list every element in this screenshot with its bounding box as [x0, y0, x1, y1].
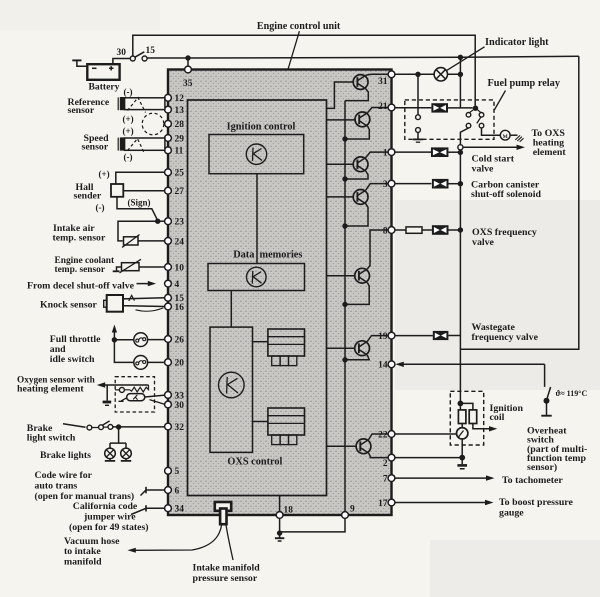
- junction Q4 emitter on bus: [342, 223, 347, 228]
- ignition switch blade: [135, 52, 144, 57]
- svg-text:(-): (-): [124, 87, 133, 97]
- oxygen sensor label: [17, 376, 96, 395]
- ground symbol bottom: [275, 533, 284, 541]
- arrow to tachometer: [395, 475, 495, 480]
- svg-text:9: 9: [350, 505, 355, 515]
- pin 25 (left edge): [165, 169, 185, 179]
- output stage connector 2: [268, 408, 305, 445]
- relay coil (pin 21 to plus): [395, 103, 473, 112]
- callout to relay box: [494, 91, 505, 111]
- svg-text:Data memories: Data memories: [233, 249, 302, 260]
- pin 34 (left edge): [165, 505, 185, 515]
- pin 11 (left edge): [165, 147, 184, 157]
- brake light switch label: [27, 423, 76, 444]
- knock sensor transducer: [104, 295, 123, 312]
- svg-text:34: 34: [175, 505, 185, 515]
- fuel pump motor M: [500, 130, 510, 140]
- wire OXS control to output stage connector 1: [253, 341, 268, 343]
- wire down to idle switch: [114, 340, 133, 363]
- svg-text:Code wire for: Code wire for: [35, 470, 93, 481]
- wire lamp-left down to aux contact: [417, 74, 419, 115]
- transistor Q3 (drives pin 1): [353, 157, 368, 172]
- from decel shut-off valve label: [27, 280, 135, 291]
- pin 23 (left edge): [165, 218, 185, 228]
- wire Q5 emitter to bus: [345, 283, 369, 305]
- cold start valve label: [472, 153, 515, 174]
- wire Q1 base staircase from logic block: [327, 82, 355, 108]
- svg-text:to intake: to intake: [64, 546, 101, 557]
- pin 33 (left edge): [165, 391, 185, 401]
- coil common terminal circle: [457, 424, 468, 439]
- overheat switch S3: [544, 387, 551, 404]
- temperature label 119C: [556, 389, 588, 398]
- arrow into pin 4: [137, 281, 157, 286]
- OXS frequency valve series resistor: [395, 227, 432, 233]
- svg-text:(-): (-): [96, 203, 105, 213]
- svg-text:OXS control: OXS control: [227, 457, 282, 468]
- wire lambda return to pin 30: [150, 400, 165, 405]
- ignition control block label: [227, 122, 296, 133]
- svg-text:Knock sensor: Knock sensor: [40, 300, 98, 311]
- transistor Q2 (drives pin 21): [355, 112, 370, 127]
- label (-) speed: [124, 152, 133, 162]
- pin 17 (right edge): [378, 499, 395, 509]
- pin 20 (left edge): [165, 359, 185, 369]
- shield loop to pin 28 (dashed circle): [142, 113, 164, 135]
- brake lamp L1: [105, 448, 116, 459]
- svg-text:To boost pressure: To boost pressure: [499, 497, 574, 508]
- wire hall minus to pin 23 node: [117, 197, 158, 221]
- svg-text:30: 30: [175, 401, 185, 411]
- svg-text:ϑ≈ 119°C: ϑ≈ 119°C: [556, 389, 588, 398]
- svg-text:element: element: [533, 147, 567, 158]
- pin 21 (right edge): [378, 102, 395, 112]
- svg-text:28: 28: [175, 120, 185, 130]
- wire OXS control to output stage connector 2: [253, 421, 268, 423]
- svg-text:31: 31: [378, 77, 388, 87]
- wire Q3 collector to pin 1: [366, 152, 389, 157]
- wire data memories to OXS control: [230, 291, 232, 328]
- intake air temp sensor R1 (thermistor): [122, 235, 140, 248]
- knock sensor label: [40, 300, 98, 311]
- emitter bus (internal ground rail to pin 9): [344, 101, 346, 512]
- svg-text:(+): (+): [123, 114, 134, 124]
- junction relay contact common: [473, 106, 478, 111]
- data memories box with K symbol: [208, 264, 305, 291]
- pin 26 (left edge): [165, 335, 185, 345]
- wire Q4 emitter to bus: [345, 204, 368, 226]
- wire Q5 base from logic block: [327, 275, 356, 277]
- svg-text:22: 22: [378, 430, 388, 440]
- data memories label: [233, 249, 302, 260]
- callout to pressure sensor label: [226, 524, 233, 560]
- vacuum hose to arrow: [128, 524, 222, 553]
- svg-text:valve: valve: [472, 237, 495, 248]
- battery negative terminal to chassis ground: [72, 60, 87, 66]
- svg-text:heating element: heating element: [17, 383, 84, 394]
- lambda sensor case ground: [119, 398, 127, 402]
- carbon canister label: [471, 179, 541, 200]
- engine coolant temp sensor R2 (thermistor): [120, 259, 142, 273]
- pin 7 (right edge): [383, 475, 395, 485]
- coil primary winding: [458, 403, 466, 423]
- wire Q2 base from logic block: [327, 119, 356, 121]
- svg-text:Engine control unit: Engine control unit: [257, 21, 341, 32]
- pin 30 (left edge): [165, 401, 185, 411]
- svg-text:sensor): sensor): [527, 462, 557, 473]
- svg-text:24: 24: [175, 237, 185, 247]
- svg-text:26: 26: [175, 335, 185, 345]
- transistor Q1 (drives pin 31): [353, 75, 368, 90]
- knock cable marker: [129, 295, 135, 301]
- label (+) reference: [123, 114, 134, 124]
- pin 29 (left edge): [165, 134, 185, 144]
- pin 15 (left edge): [165, 294, 185, 304]
- wire idle switch to pin 20: [148, 361, 165, 363]
- pin 32 (left edge): [165, 423, 185, 433]
- full throttle and idle switch label: [50, 334, 101, 365]
- speed sensor label: [82, 133, 110, 152]
- OXS frequency valve label: [472, 227, 537, 248]
- wire Q1 emitter to bus: [345, 89, 368, 101]
- svg-text:sensor: sensor: [82, 142, 109, 153]
- wire Q4 base from logic block: [327, 196, 355, 198]
- hall sender label: [74, 182, 102, 202]
- wire plus feed down to relay coil node: [459, 57, 461, 107]
- wire coolant sensor to pin 10: [139, 266, 165, 268]
- knock cable shield arc: [136, 308, 164, 311]
- wire Q7 base from logic block: [327, 445, 357, 447]
- heater terminal circle: [115, 387, 124, 392]
- overheat switch ground: [541, 403, 551, 416]
- pin 22 (right edge): [378, 430, 395, 440]
- svg-text:(Sign): (Sign): [128, 197, 151, 207]
- svg-text:20: 20: [175, 359, 185, 369]
- svg-text:jumper wire: jumper wire: [83, 511, 136, 522]
- arrow to OXS heating element: [460, 145, 525, 153]
- transistor Q5 (drives pin 8): [355, 268, 370, 283]
- wire Q6 collector to pin 19: [367, 336, 388, 342]
- wire terminal 15 bus (switched plus): [147, 56, 579, 58]
- pin 13 (left edge): [165, 106, 185, 116]
- label (+) hall: [99, 169, 110, 179]
- svg-text:M: M: [503, 134, 509, 140]
- overheat switch label: [527, 425, 587, 473]
- svg-text:valve: valve: [472, 163, 495, 174]
- pin 19 (right edge): [378, 332, 395, 342]
- valve supply bus: [459, 150, 461, 403]
- junction brake node: [116, 424, 121, 429]
- OXS frequency valve Y3: [432, 225, 463, 235]
- junction Q6 emitter on bus: [342, 357, 347, 362]
- pin 18 (bottom edge): [276, 506, 293, 519]
- heating element R3: [125, 385, 149, 392]
- california jumper open end to pin 34: [131, 505, 165, 514]
- junction coil supply: [458, 401, 464, 407]
- brake lamp L2: [121, 448, 132, 459]
- pin 12 (left edge): [165, 94, 185, 104]
- svg-text:32: 32: [175, 423, 185, 433]
- pressure sensor label: [193, 562, 261, 584]
- output stage connector 1: [268, 329, 305, 366]
- brake lights label: [40, 450, 91, 461]
- transistor Q6 (drives pin 19): [355, 341, 370, 356]
- svg-text:Battery: Battery: [89, 81, 120, 92]
- to OXS heating element label: [532, 128, 567, 158]
- heater ground: [103, 385, 112, 406]
- throttle feed arrow up: [112, 325, 117, 341]
- svg-text:temp. sensor: temp. sensor: [55, 265, 106, 275]
- svg-text:35: 35: [183, 79, 193, 89]
- ECU inner logic block border: [188, 100, 327, 496]
- code wire labels: [35, 470, 135, 502]
- pin 3 (right edge): [383, 180, 395, 190]
- reference sensor twist marks (dashed): [128, 98, 146, 113]
- ignition switch terminal 30: [117, 48, 136, 61]
- wire overheat switch to pin 14 (arrow): [395, 362, 544, 387]
- brake lamp grounds: [105, 459, 131, 461]
- svg-text:(+): (+): [99, 169, 110, 179]
- wire full throttle switch to pin 26: [148, 339, 165, 341]
- wire pin 9 to ground node: [280, 518, 345, 532]
- pin 27 (left edge): [165, 187, 185, 197]
- wire Q1 collector to pin 31: [366, 73, 389, 76]
- svg-text:Ignition control: Ignition control: [227, 122, 296, 133]
- wire battery positive to terminal 30: [113, 59, 130, 65]
- junction throttle feed: [112, 337, 117, 342]
- relay aux contact (to ground): [416, 115, 421, 133]
- coil secondary winding: [460, 403, 476, 423]
- svg-text:8: 8: [383, 226, 388, 236]
- wire right-side loop from terminal 15 to valve bus: [460, 56, 578, 349]
- svg-text:(-): (-): [124, 152, 133, 162]
- svg-text:14: 14: [378, 361, 388, 371]
- indicator light label: [485, 37, 549, 48]
- wire Q6 emitter to bus: [345, 355, 369, 360]
- svg-text:Brake lights: Brake lights: [40, 450, 91, 461]
- code wire open end to pin 6: [141, 487, 165, 496]
- wire Q2 collector to pin 21: [368, 108, 389, 113]
- speed sensor pickup: [118, 137, 124, 150]
- svg-text:gauge: gauge: [499, 507, 524, 518]
- fuel pump chassis ground: [510, 135, 523, 142]
- svg-text:17: 17: [378, 499, 388, 509]
- svg-text:33: 33: [175, 391, 185, 401]
- lambda sensor element: [127, 394, 145, 401]
- pin 24 (left edge): [165, 237, 185, 247]
- svg-text:15: 15: [146, 46, 156, 56]
- svg-text:27: 27: [175, 187, 185, 197]
- wire to full throttle switch: [114, 339, 133, 341]
- wire Q7 emitter to pin 2: [369, 453, 389, 458]
- svg-text:3: 3: [383, 180, 388, 190]
- wire node23 to intake air temp sensor: [118, 221, 158, 241]
- reference sensor label: [68, 97, 110, 116]
- junction Q2 emitter on bus: [342, 136, 347, 141]
- wire knock sensor to pin 15: [123, 298, 165, 299]
- junction terminal15/pin35: [185, 55, 190, 66]
- brake light switch contacts: [87, 421, 113, 430]
- wire Q7 collector to pin 22: [369, 434, 389, 440]
- coil ground: [457, 458, 467, 470]
- svg-text:pressure sensor: pressure sensor: [193, 573, 258, 584]
- to tachometer label: [502, 475, 563, 486]
- carbon canister shut-off solenoid Y2: [395, 179, 463, 189]
- ignition switch terminal 15: [142, 46, 155, 61]
- callout line to ECU box: [288, 31, 299, 69]
- svg-text:10: 10: [175, 263, 185, 273]
- svg-text:(+): (+): [123, 126, 134, 136]
- wire from label to switch: [63, 424, 86, 428]
- cold start valve Y1: [395, 147, 463, 157]
- svg-text:Indicator light: Indicator light: [485, 37, 549, 48]
- svg-text:19: 19: [378, 332, 388, 342]
- pin 31 (right edge): [378, 71, 395, 87]
- svg-text:30: 30: [117, 48, 127, 58]
- to boost pressure gauge label: [499, 497, 574, 519]
- svg-text:16: 16: [175, 303, 185, 313]
- wire Q6 base from logic block: [327, 347, 356, 349]
- svg-text:coil: coil: [490, 412, 505, 423]
- intake manifold pressure sensor (plug): [215, 502, 231, 524]
- relay aux contact ground: [413, 132, 423, 142]
- engine coolant temp sensor label: [55, 256, 116, 275]
- wire Q2 emitter to bus: [345, 126, 369, 139]
- full throttle microswitch S1: [134, 333, 148, 347]
- fuel pump relay label: [488, 78, 561, 89]
- svg-text:4: 4: [175, 280, 180, 290]
- OXS control label: [227, 457, 282, 468]
- engine control unit U1 (outer box): [168, 70, 392, 516]
- svg-text:shut-off solenoid: shut-off solenoid: [471, 189, 541, 200]
- pin 1 (right edge): [383, 149, 395, 159]
- junction node pin 23: [155, 219, 165, 224]
- pin 8 (right edge): [383, 226, 395, 236]
- pin 6 (left edge): [165, 486, 180, 496]
- svg-text:5: 5: [175, 467, 180, 477]
- wire pin 18 to ground: [279, 518, 281, 533]
- junction Q3 emitter on bus: [342, 176, 347, 181]
- wire pin 31 to lamp circuit: [395, 73, 461, 75]
- wire relay output to valve bus: [460, 128, 468, 144]
- wire hall signal to pin 27: [123, 190, 165, 192]
- svg-text:idle switch: idle switch: [50, 354, 95, 365]
- junction lamp right / plus feed: [458, 72, 463, 77]
- ignition coil label: [490, 403, 524, 423]
- svg-text:18: 18: [284, 506, 294, 516]
- wire Q3 emitter to bus: [345, 171, 368, 179]
- svg-text:11: 11: [175, 147, 184, 157]
- idle microswitch S2: [134, 356, 148, 370]
- wire pin 22 to coil terminal: [395, 433, 457, 435]
- pin 5 (left edge): [165, 467, 180, 477]
- OXS control box with K symbol: [210, 327, 253, 452]
- svg-text:6: 6: [175, 486, 180, 496]
- fuel pump relay K1 dashed box: [405, 100, 494, 139]
- svg-text:frequency valve: frequency valve: [472, 332, 539, 343]
- svg-text:light switch: light switch: [27, 433, 76, 444]
- oxygen sensor dashed enclosure: [115, 377, 154, 412]
- arrow to boost pressure gauge: [395, 500, 494, 505]
- svg-text:29: 29: [175, 134, 185, 144]
- svg-text:California code: California code: [73, 501, 138, 512]
- junction terminal15/indicator feed: [458, 55, 463, 60]
- speed sensor cable pair to pins 29/11: [125, 138, 165, 150]
- junction ground node: [277, 530, 282, 535]
- pin 28 (left edge): [165, 120, 185, 130]
- wire pin 2 to ground node: [395, 455, 466, 461]
- label (+) speed: [123, 126, 134, 136]
- wire Q5 collector to pin 8: [367, 230, 388, 269]
- battery label: [89, 81, 120, 92]
- wastegate frequency valve Y4: [395, 331, 461, 340]
- label (-) reference: [124, 87, 133, 97]
- callout to lamp: [446, 47, 485, 71]
- svg-text:23: 23: [175, 218, 185, 228]
- battery B1: [87, 64, 119, 80]
- relay main contact set: [466, 108, 484, 128]
- reference sensor cable pair to pins 12/13: [125, 98, 165, 110]
- svg-text:Fuel pump relay: Fuel pump relay: [488, 78, 561, 89]
- wire brake node to pin 32: [113, 426, 165, 428]
- svg-text:7: 7: [383, 475, 388, 485]
- svg-text:sender: sender: [74, 190, 102, 201]
- wire Q3 base from logic block: [327, 163, 355, 165]
- coil HT output arrow: [473, 424, 497, 432]
- engine control unit label: [257, 21, 341, 32]
- pin 14 (right edge): [378, 361, 395, 371]
- junction lamp left / relay coil drop: [415, 72, 420, 77]
- wire pin 18 to logic block bottom: [279, 496, 281, 512]
- svg-text:Intake manifold: Intake manifold: [193, 562, 261, 573]
- svg-text:25: 25: [175, 169, 185, 179]
- wire lambda signal to pin 33: [145, 395, 165, 397]
- speed sensor twist marks (dashed): [128, 139, 145, 153]
- ignition coil T1 dashed box: [450, 391, 483, 445]
- wire ignition control to data memories: [256, 174, 258, 264]
- svg-text:(open for 49 states): (open for 49 states): [69, 522, 149, 533]
- svg-text:2: 2: [383, 459, 388, 469]
- pin 4 (left edge): [165, 280, 180, 290]
- svg-text:12: 12: [175, 94, 185, 104]
- svg-text:sensor: sensor: [68, 105, 95, 116]
- label (Sign): [128, 197, 151, 207]
- svg-text:temp. sensor: temp. sensor: [53, 232, 106, 243]
- transistor Q4 (drives pin 3): [353, 190, 368, 205]
- svg-text:From decel shut-off valve: From decel shut-off valve: [27, 280, 135, 291]
- wire terminal 30 to relay feed (top run): [133, 35, 475, 108]
- wire knock sensor to pin 16: [123, 305, 165, 308]
- intake air temp sensor label: [53, 223, 106, 243]
- svg-text:To tachometer: To tachometer: [502, 475, 563, 486]
- pin 16 (left edge): [165, 303, 185, 313]
- wire intake air temp sensor to pin 24: [138, 240, 165, 242]
- svg-text:manifold: manifold: [64, 557, 102, 568]
- svg-text:1: 1: [383, 149, 388, 159]
- wire hall plus to pin 25: [116, 172, 165, 184]
- label (-) hall: [96, 203, 105, 213]
- pin 9 (bottom edge): [342, 505, 355, 519]
- heater supply arrow (to label): [97, 382, 149, 387]
- wire brake node down to lamps: [110, 427, 126, 448]
- wastegate frequency valve label: [472, 322, 539, 343]
- california code jumper labels: [69, 501, 149, 533]
- indicator lamp L3: [434, 68, 447, 81]
- transistor Q7 (ignition driver, pins 22/2): [356, 439, 371, 454]
- pin 2 (right edge): [383, 454, 395, 469]
- reference sensor pickup: [118, 97, 124, 110]
- wire relay to fuel pump motor: [482, 128, 501, 135]
